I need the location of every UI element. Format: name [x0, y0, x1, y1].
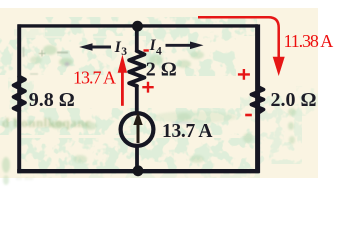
junction node bottom: [133, 165, 144, 176]
current arrow I3 (points left): [90, 46, 111, 49]
current arrow I4 (points right): [166, 44, 192, 47]
svg-text:13.7 A: 13.7 A: [162, 121, 212, 142]
svg-text:d bonnlkoqanc: d bonnlkoqanc: [2, 115, 91, 130]
annotation arrow 13.7 A (red, points up): [121, 72, 124, 106]
wire middle branch between resistor and source: [135, 85, 139, 114]
polarity plus (red, top of 2.0 ohm): [238, 69, 250, 80]
svg-text:13.7 A: 13.7 A: [73, 68, 116, 88]
wire bottom: [17, 169, 259, 173]
junction node top: [132, 21, 143, 32]
wire right: [255, 24, 260, 173]
paper mottling texture: [0, 17, 318, 178]
polarity minus (red, bottom of 2.0 ohm): [245, 114, 252, 117]
current source I=13.7A (circle): [121, 113, 154, 146]
maroon scan fringe under top wire: [22, 27, 130, 29]
current source arrow (points up): [137, 124, 140, 143]
svg-text:+: +: [38, 47, 46, 62]
paper background: [0, 8, 318, 178]
svg-text:2 Ω: 2 Ω: [146, 59, 177, 81]
wire top: [18, 24, 258, 27]
polarity minus (red, top of 2 ohm): [144, 49, 149, 51]
wire middle branch lower: [135, 145, 139, 171]
svg-text:11.38 A: 11.38 A: [284, 31, 334, 51]
svg-text:9.8 Ω: 9.8 Ω: [29, 89, 75, 111]
resistor 9.8 ohm (left branch): [14, 77, 25, 111]
annotation arrow 11.38 A (red, curves from top down right side): [198, 17, 279, 59]
maroon scan fringe under bottom wire: [20, 173, 256, 175]
ghost bleed-through text: [2, 115, 91, 183]
resistor 2.0 ohm (right branch): [251, 87, 263, 114]
polarity plus (red, bottom of 2 ohm): [142, 82, 153, 93]
wire left: [17, 24, 21, 172]
svg-text:2.0 Ω: 2.0 Ω: [271, 89, 317, 111]
wire middle branch upper: [135, 26, 139, 52]
svg-text:4: 4: [156, 46, 162, 58]
resistor 2 ohm (middle branch): [129, 51, 144, 86]
